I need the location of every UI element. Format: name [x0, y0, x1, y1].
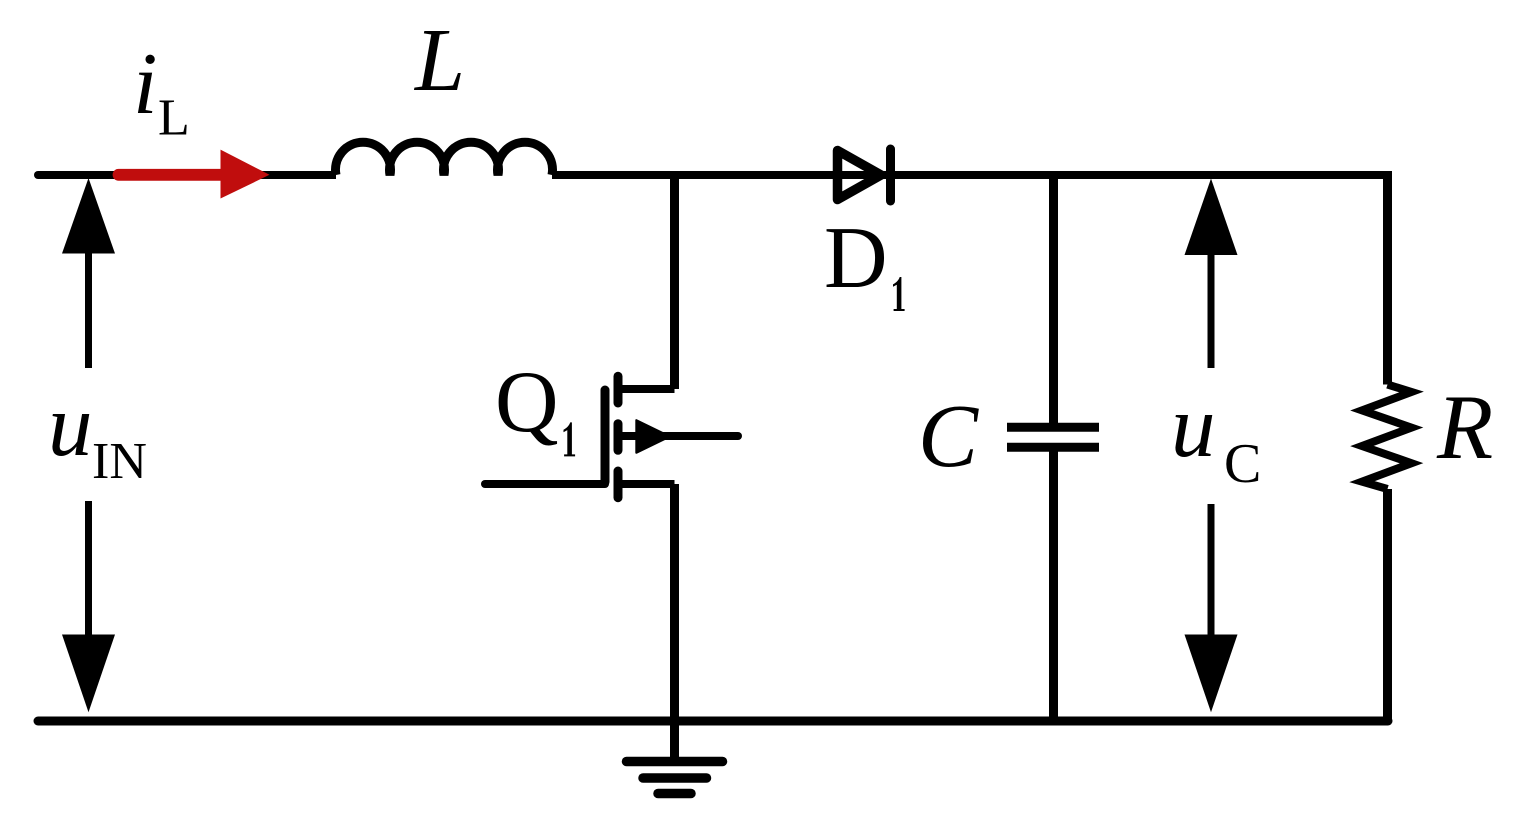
- wire: capacitor branch top: [1049, 175, 1058, 423]
- capacitor C bottom plate: [1007, 443, 1099, 452]
- voltage arrow uC down: [1208, 504, 1215, 640]
- wire: source vertical down through bottom rail to ground: [670, 484, 679, 757]
- MOSFET Q1 body lead with arrow: [620, 432, 738, 440]
- resistor R zigzag: [1362, 385, 1412, 490]
- svg-text:D: D: [824, 210, 888, 307]
- MOSFET Q1 source stub: [618, 480, 675, 488]
- MOSFET Q1 channel bottom segment: [614, 471, 623, 498]
- MOSFET Q1 gate lead: [485, 480, 605, 488]
- MOSFET Q1 drain stub: [618, 385, 675, 393]
- ground bar 1: [627, 757, 723, 767]
- inductor L: [336, 142, 553, 175]
- wire: top rail right (inductor to output corner): [552, 171, 1392, 179]
- wire: right rail top (to resistor): [1383, 171, 1392, 385]
- capacitor C top plate: [1007, 423, 1099, 432]
- svg-text:i: i: [133, 36, 157, 133]
- svg-text:C: C: [1224, 433, 1261, 495]
- svg-text:L: L: [158, 90, 190, 147]
- MOSFET Q1 channel top segment: [614, 376, 623, 403]
- svg-text:IN: IN: [92, 433, 147, 490]
- voltage arrow uC up: [1208, 250, 1215, 368]
- wire: drain vertical from top rail: [670, 175, 679, 389]
- wire: bottom rail: [38, 717, 1388, 726]
- diode D1 triangle: [838, 151, 882, 200]
- MOSFET Q1 channel mid segment: [614, 424, 623, 451]
- ground bar 3: [658, 789, 691, 799]
- wire: capacitor branch bottom: [1049, 452, 1058, 722]
- wire: top rail left (input to inductor): [38, 171, 336, 179]
- wire: right rail bottom (from resistor): [1383, 489, 1392, 722]
- voltage arrow uIN up: [85, 250, 92, 368]
- svg-text:Q: Q: [495, 354, 559, 451]
- diode D1 cathode bar: [886, 149, 895, 201]
- svg-text:R: R: [1436, 376, 1493, 478]
- voltage arrow uIN down: [85, 501, 92, 640]
- svg-text:C: C: [918, 387, 979, 486]
- ground bar 2: [643, 773, 707, 783]
- svg-text:L: L: [413, 11, 465, 110]
- MOSFET Q1 gate bar: [601, 390, 610, 482]
- svg-text:u: u: [48, 377, 93, 475]
- current arrow iL (red): [119, 150, 270, 199]
- svg-text:u: u: [1171, 378, 1216, 476]
